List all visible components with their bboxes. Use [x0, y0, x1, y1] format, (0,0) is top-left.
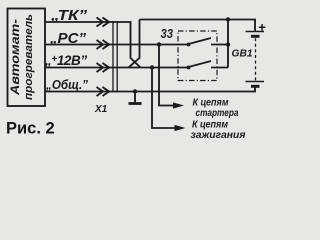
- svg-text:X1: X1: [94, 104, 108, 115]
- svg-text:GB1: GB1: [232, 48, 253, 60]
- switch box ЗЗ dashed enclosure: [178, 31, 217, 81]
- arrowhead starter circuits: [173, 102, 184, 108]
- ground chassis symbol: [129, 92, 142, 104]
- connector X1 bracket lines: [113, 21, 117, 93]
- wire ТК row: [45, 22, 141, 68]
- switch contact S1 upper: [187, 43, 191, 47]
- svg-text:Автомат-: Автомат-: [10, 19, 22, 96]
- svg-text:зажигания: зажигания: [191, 130, 246, 141]
- connector X1 pin 3 +12В: [97, 63, 110, 72]
- svg-text:Рис. 2: Рис. 2: [6, 120, 55, 138]
- svg-text:стартера: стартера: [196, 108, 239, 119]
- wire battery feed vertical: [227, 20, 229, 68]
- connector X1 pin 4 Общ: [97, 87, 110, 96]
- battery plus polarity mark: [259, 24, 266, 31]
- svg-text:„+12В”: „+12В”: [44, 53, 87, 68]
- svg-text:прогреватель: прогреватель: [23, 14, 35, 100]
- connector X1 pin 2 РС: [97, 40, 110, 49]
- connector X1 pin 1 ТК: [97, 18, 110, 27]
- wire to ignition circuits: [152, 68, 176, 129]
- wire top battery plus rail: [140, 20, 256, 32]
- wire Общ row: [45, 88, 255, 92]
- wire +12В row: [45, 67, 189, 69]
- node junction ТК to ignition branch: [150, 65, 154, 69]
- wire +12В to battery crossover: [129, 20, 140, 68]
- battery GB1: [246, 32, 265, 87]
- svg-text:ЗЗ: ЗЗ: [161, 27, 174, 41]
- svg-text:К цепям: К цепям: [193, 98, 229, 109]
- node junction feed to S1 fixed contact: [226, 42, 230, 46]
- wire to starter circuits: [159, 45, 175, 106]
- node junction РС to starter branch: [157, 42, 161, 46]
- svg-text:„Общ.”: „Общ.”: [45, 78, 89, 92]
- wire РС row: [45, 44, 189, 46]
- arrowhead ignition circuits: [175, 125, 186, 131]
- svg-text:К цепям: К цепям: [192, 119, 228, 130]
- device box U1 Автомат-прогреватель: [8, 9, 46, 107]
- node junction plus rail to feed: [226, 17, 230, 21]
- switch contact S2 lower: [187, 66, 191, 70]
- node junction Общ to ground: [133, 89, 137, 93]
